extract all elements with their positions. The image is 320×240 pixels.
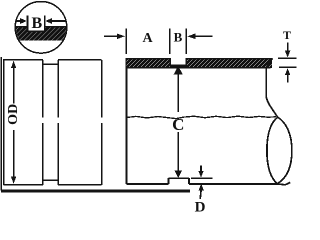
dim T up arrowhead (285, 68, 290, 75)
dim T up arrow shaft (287, 74, 289, 82)
coupling right rect right edge (with break) (101, 60, 103, 185)
dim B arrow shaft (195, 35, 213, 37)
svg-text:T: T (283, 28, 291, 42)
detail wall surface left (14, 26, 27, 28)
detail B left-point arrowhead (45, 18, 52, 24)
detail groove floor (27, 30, 44, 32)
svg-text:B: B (31, 15, 42, 32)
svg-text:OD: OD (6, 104, 21, 125)
break lens left arc (267, 117, 278, 184)
step right wall (188, 178, 190, 184)
detail B left-point arrow shaft (51, 20, 67, 22)
detail circle outline (15, 2, 67, 54)
OD dimension line (13, 67, 15, 178)
detail B right-point arrow shaft (15, 20, 21, 22)
dim D up arrowhead (199, 184, 204, 191)
dim T ext line top (278, 57, 297, 59)
coupling body right rectangle (58, 60, 101, 185)
detail groove left wall / ext line (26, 16, 28, 32)
detail groove white cut (27, 14, 44, 31)
coupling body left rectangle (4, 60, 43, 185)
dim A arrow shaft (104, 35, 118, 37)
pipe wall hatched band (126, 58, 272, 68)
coupling right rect left edge (with break) (57, 60, 59, 185)
detail B right-point arrowhead (20, 18, 27, 24)
bottom rule (1, 190, 190, 193)
band top edge right segment (186, 58, 272, 60)
coupling waist top edge (43, 63, 58, 65)
dim D up arrow shaft (199, 190, 202, 199)
dim T ext line bottom (279, 66, 297, 68)
pipe break wavy line (127, 116, 277, 118)
groove notch white cut (170, 57, 186, 66)
detail wall hatched band (14, 27, 69, 41)
pipe break curve (266, 58, 278, 117)
pipe bottom edge left segment (126, 183, 168, 185)
svg-text:C: C (172, 115, 184, 134)
dim T down arrowhead (285, 51, 290, 58)
dim B arrowhead (187, 34, 195, 40)
groove left wall (169, 58, 171, 65)
step left wall (167, 178, 169, 184)
break lens right arc (277, 117, 292, 184)
detail wall surface right (45, 26, 67, 28)
pipe left edge (125, 58, 127, 184)
dim C bottom arrowhead (175, 171, 182, 178)
OD bottom arrow (11, 176, 16, 184)
pipe bottom edge right segment (189, 182, 290, 184)
step top edge (168, 177, 189, 179)
band top edge left segment (126, 58, 170, 60)
dim D down arrow shaft (200, 166, 202, 172)
step extension line (191, 177, 212, 179)
extension line groove right (185, 29, 187, 54)
OD top arrow (11, 61, 16, 69)
coupling left rect right edge (with break) (42, 60, 44, 185)
detail groove right wall / ext line (44, 16, 46, 32)
extension line pipe left edge (125, 29, 127, 55)
svg-text:A: A (142, 31, 153, 46)
left border line (0, 57, 2, 191)
dim C top arrowhead (174, 66, 183, 74)
svg-text:D: D (195, 199, 206, 213)
band bottom edge (126, 67, 270, 69)
dim A arrowhead (117, 34, 125, 40)
dim T down arrow shaft (287, 43, 289, 52)
coupling waist bottom edge (43, 179, 58, 181)
dim D down arrowhead (198, 171, 203, 178)
extension line groove left (169, 29, 171, 54)
svg-text:B: B (174, 29, 183, 44)
groove floor (170, 65, 186, 69)
groove right wall (185, 58, 187, 65)
dim C line (177, 74, 179, 172)
